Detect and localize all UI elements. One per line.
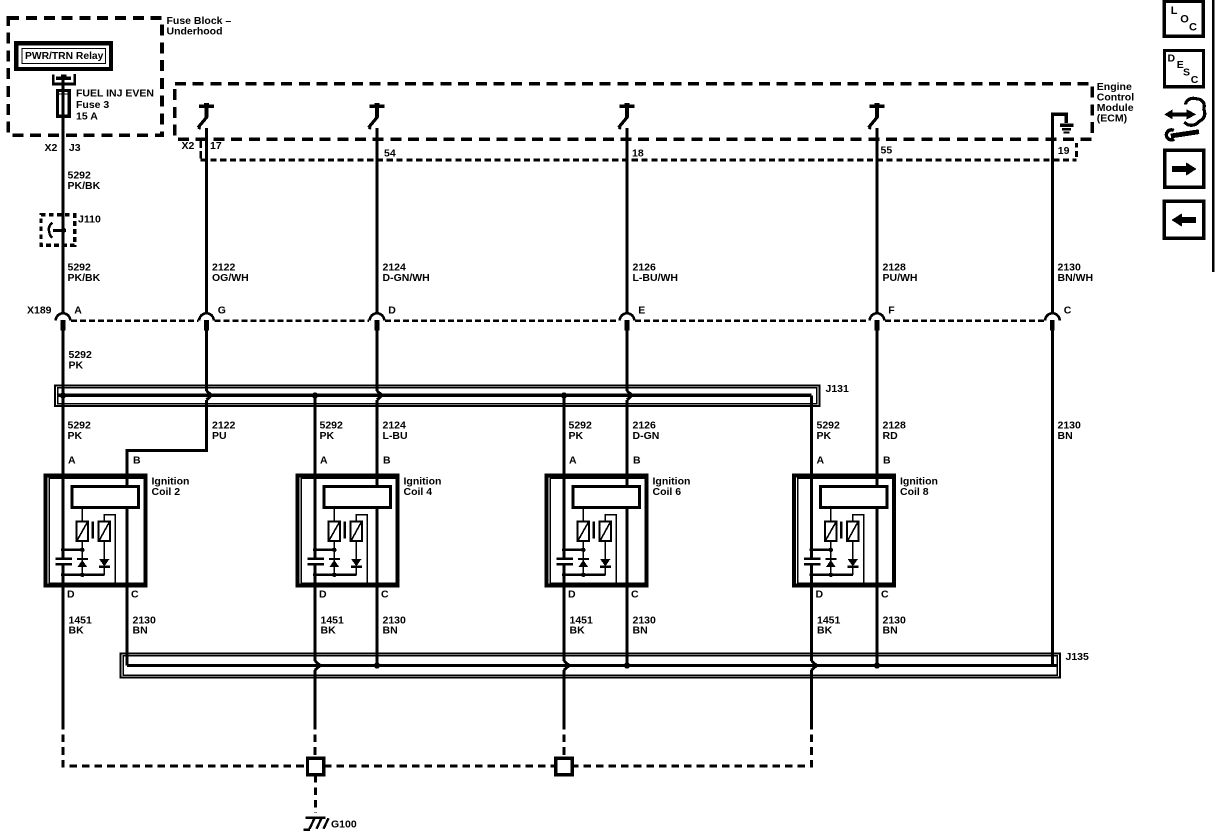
ignition coil 4 pin letters A B bbox=[320, 454, 391, 466]
ECM output driver pin 54 bbox=[369, 103, 385, 129]
ignition coil 4 primary winding bbox=[329, 508, 341, 542]
svg-text:15 A: 15 A bbox=[76, 111, 98, 123]
ignition coil 6 pin letters D C bbox=[568, 588, 639, 600]
svg-text:BN: BN bbox=[1058, 430, 1073, 442]
svg-text:L-BU: L-BU bbox=[383, 430, 408, 442]
wire 1451 BK coil 4 D below J135 bbox=[313, 670, 316, 722]
svg-text:17: 17 bbox=[210, 140, 222, 152]
ignition coil 4 capacitor bbox=[308, 559, 324, 565]
ignition coil 6 module block bbox=[573, 487, 640, 508]
ignition coil 2 label bbox=[152, 475, 190, 498]
wire crossing hop over J135 at x=564 bbox=[564, 661, 569, 670]
svg-text:C: C bbox=[1189, 22, 1197, 34]
ignition coil 6 capacitor bbox=[557, 559, 573, 565]
ECM output driver pin 17 bbox=[198, 103, 214, 129]
wire label 2126 L-BU/WH bbox=[633, 262, 679, 285]
svg-text:F: F bbox=[888, 305, 895, 317]
ignition coil 6 junction row bbox=[562, 548, 586, 552]
connector X189 pin A bbox=[56, 305, 83, 331]
svg-text:BK: BK bbox=[817, 624, 833, 636]
nav icon previous arrow bbox=[1164, 201, 1203, 238]
svg-text:D: D bbox=[319, 588, 327, 600]
svg-text:S: S bbox=[1183, 67, 1190, 79]
wire 5292 PK J131 to coil 2 pin A bbox=[61, 395, 64, 475]
svg-text:D: D bbox=[816, 588, 824, 600]
relay PWR/TRN Relay bbox=[16, 43, 111, 69]
svg-text:BN: BN bbox=[383, 624, 398, 636]
ignition coil 4 pin A-D wire inside bbox=[314, 476, 317, 586]
ignition coil 8 primary winding bbox=[825, 508, 837, 542]
svg-text:BN: BN bbox=[633, 624, 648, 636]
ignition coil 8 secondary winding bbox=[847, 522, 858, 542]
svg-text:Underhood: Underhood bbox=[167, 26, 223, 38]
ECM connector bracket right bbox=[1075, 143, 1078, 157]
wire label 2128 PU/WH bbox=[883, 262, 918, 285]
wire from ECM pin 17 to X189 bbox=[205, 128, 208, 315]
ignition coil 4 pin letters D C bbox=[319, 588, 389, 600]
svg-text:B: B bbox=[633, 454, 641, 466]
svg-text:C: C bbox=[131, 588, 139, 600]
junction dot J135 coil 6 C bbox=[624, 662, 630, 668]
ignition coil 2 core bbox=[92, 522, 94, 539]
wire 2122 PU J131 to coil 2 pin B with jog bbox=[127, 400, 207, 476]
wire 2128 from X189 F to ignition coil 8 pin B bbox=[875, 330, 878, 475]
ground splice square S2 bbox=[556, 758, 572, 774]
svg-text:BK: BK bbox=[321, 624, 337, 636]
ignition coil 6 pin B wire bbox=[625, 476, 628, 487]
ignition coil 4 secondary winding bbox=[351, 522, 362, 542]
wire label 2124 L-BU bbox=[383, 419, 408, 442]
wire from ECM pin 54 to X189 bbox=[375, 128, 378, 315]
junction dot J131 wire A coil 6 bbox=[561, 392, 567, 398]
ignition coil 2 pin A-D wire inside bbox=[62, 476, 65, 586]
svg-text:A: A bbox=[817, 454, 825, 466]
ground G100 bbox=[304, 818, 329, 830]
svg-text:J131: J131 bbox=[826, 383, 850, 395]
splice J131 bbox=[55, 386, 820, 407]
ECM output driver pin 18 bbox=[619, 103, 635, 129]
svg-text:18: 18 bbox=[632, 148, 644, 160]
splice J135 bbox=[121, 654, 1061, 678]
ignition coil 6 label bbox=[653, 475, 691, 498]
svg-text:X2: X2 bbox=[45, 142, 58, 154]
svg-text:PWR/TRN Relay: PWR/TRN Relay bbox=[25, 51, 104, 62]
svg-text:Coil 2: Coil 2 bbox=[152, 486, 181, 498]
svg-text:A: A bbox=[569, 454, 577, 466]
wire 1451 BK label coil 6 bbox=[570, 614, 594, 636]
ignition coil 8 pin C wire inside bbox=[875, 508, 878, 586]
ignition coil 6 core bbox=[593, 522, 595, 539]
wire 2130 BN label coil 2 bbox=[133, 614, 157, 636]
ignition coil 4 box bbox=[298, 476, 398, 586]
nav icon next arrow bbox=[1165, 150, 1204, 187]
wire 1451 BK coil 8 pin D to J135 crossing bbox=[810, 586, 813, 661]
svg-text:19: 19 bbox=[1058, 145, 1070, 157]
wire label 5292 PK bbox=[569, 419, 593, 442]
wire 1451 BK label coil 2 bbox=[69, 614, 93, 636]
wire 5292 from fuse down to X189 pin A bbox=[61, 76, 64, 315]
ECM label bbox=[1097, 81, 1134, 125]
svg-text:Coil 6: Coil 6 bbox=[653, 486, 682, 498]
svg-text:PK: PK bbox=[69, 360, 84, 372]
svg-text:BN: BN bbox=[883, 624, 898, 636]
wire 2124 from X189 D to splice J131 crossing bbox=[375, 330, 378, 390]
ECM internal ground pin 19 bbox=[1052, 114, 1073, 132]
wire 1451 BK label coil 4 bbox=[321, 614, 345, 636]
svg-text:BK: BK bbox=[69, 624, 85, 636]
svg-text:X2: X2 bbox=[182, 140, 195, 152]
svg-text:PU: PU bbox=[212, 430, 227, 442]
wire 2130 BN coil 4 pin C to splice J135 bbox=[375, 586, 378, 666]
ignition coil 6 pin A-D wire inside bbox=[563, 476, 566, 586]
wire label 5292 PK below X189 bbox=[69, 349, 93, 372]
wire 2130 BN coil 6 pin C to splice J135 bbox=[625, 586, 628, 666]
svg-text:G: G bbox=[218, 305, 226, 317]
ignition coil 8 pin B wire bbox=[875, 476, 878, 487]
wire crossing hop over J131 at x=627 bbox=[627, 391, 632, 400]
connector X189 pin D bbox=[370, 305, 397, 331]
ignition coil 4 pin C wire inside bbox=[375, 508, 378, 586]
wire label 5292 PK bbox=[320, 419, 344, 442]
wire label 2130 BN/WH bbox=[1058, 262, 1094, 285]
wire 1451 BK coil 6 pin D to J135 crossing bbox=[562, 586, 565, 661]
wire 2126 from X189 E to splice J131 crossing bbox=[625, 330, 628, 390]
svg-text:Fuse 3: Fuse 3 bbox=[76, 99, 109, 111]
fuse label bbox=[76, 87, 154, 122]
ignition coil 2 pin letters D C bbox=[67, 588, 139, 600]
ignition coil 4 module block bbox=[324, 487, 391, 508]
svg-text:X189: X189 bbox=[27, 305, 52, 317]
svg-text:D-GN/WH: D-GN/WH bbox=[383, 272, 430, 284]
ignition coil 2 pin C wire inside bbox=[125, 508, 128, 586]
svg-text:D-GN: D-GN bbox=[633, 430, 660, 442]
ground splice square S1 bbox=[307, 758, 323, 774]
svg-text:E: E bbox=[638, 305, 645, 317]
fuse block - underhood dashed box bbox=[8, 18, 162, 135]
svg-text:A: A bbox=[74, 305, 82, 317]
wire 5292 PK J131 right end to coil 8 pin A bbox=[810, 395, 813, 475]
wire 2130 BN label coil 6 bbox=[633, 614, 657, 636]
ignition coil 6 box bbox=[547, 476, 647, 586]
wire crossing hop over J131 at x=206.5 bbox=[207, 391, 212, 400]
ignition coil 8 right diode bbox=[847, 541, 858, 575]
wire crossing hop over J135 at x=315 bbox=[315, 661, 320, 670]
svg-text:J3: J3 bbox=[69, 142, 81, 154]
connector X189 pin E bbox=[620, 305, 646, 331]
wire 1451 BK coil 2 pin D down bbox=[61, 586, 64, 723]
wire from ECM pin 18 to X189 bbox=[625, 128, 628, 315]
ignition coil 8 capacitor bbox=[804, 559, 820, 565]
ignition coil 8 core bbox=[840, 522, 842, 539]
ECM dashed box bbox=[175, 84, 1092, 140]
svg-text:L: L bbox=[1171, 5, 1178, 17]
wire 2124 L-BU J131 to coil 4 pin B bbox=[375, 400, 378, 476]
wire 2130 BN coil 8 pin C to splice J135 bbox=[875, 586, 878, 666]
nav icon LOC bbox=[1164, 1, 1203, 36]
dashed wire splice square S1 to ground G100 bbox=[314, 775, 317, 813]
nav icon DESC bbox=[1165, 51, 1204, 87]
ignition coil 8 pin letters D C bbox=[816, 588, 890, 600]
fuse holder clip bbox=[53, 74, 74, 84]
wire crossing hop over J135 at x=811.5 bbox=[812, 661, 817, 670]
svg-text:C: C bbox=[1064, 305, 1072, 317]
wire 2130 BN label coil 8 bbox=[883, 614, 907, 636]
ignition coil 4 secondary output wire bbox=[356, 515, 367, 583]
svg-text:D: D bbox=[568, 588, 576, 600]
svg-text:J135: J135 bbox=[1066, 651, 1090, 663]
ignition coil 4 bottom junction row bbox=[313, 573, 357, 577]
wire label 5292 PK bbox=[817, 419, 841, 442]
ignition coil 2 left diode bbox=[77, 541, 88, 575]
svg-text:C: C bbox=[881, 588, 889, 600]
wire label 5292 PK bbox=[68, 419, 92, 442]
ignition coil 8 left diode bbox=[825, 541, 836, 575]
ignition coil 6 pin letters A B bbox=[569, 454, 641, 466]
ignition coil 2 box bbox=[46, 476, 146, 586]
ignition coil 6 right diode bbox=[600, 541, 611, 575]
svg-text:C: C bbox=[381, 588, 389, 600]
svg-text:PK: PK bbox=[569, 430, 584, 442]
ignition coil 2 right diode bbox=[99, 541, 110, 575]
svg-text:BK: BK bbox=[570, 624, 586, 636]
ignition coil 6 left diode bbox=[578, 541, 589, 575]
wire 2122 from X189 G to splice J131 crossing bbox=[205, 330, 208, 390]
svg-text:PK/BK: PK/BK bbox=[68, 180, 101, 192]
ignition coil 8 box bbox=[794, 476, 894, 586]
svg-text:B: B bbox=[383, 454, 391, 466]
ignition coil 2 pin letters A B bbox=[68, 454, 141, 466]
wire 1451 BK coil 6 D below J135 bbox=[562, 670, 565, 722]
svg-text:BN/WH: BN/WH bbox=[1058, 272, 1094, 284]
svg-text:PU/WH: PU/WH bbox=[883, 272, 918, 284]
ignition coil 8 pin letters A B bbox=[817, 454, 892, 466]
connector X189 pin F bbox=[870, 305, 896, 331]
connector X189 dotted line bbox=[71, 319, 1044, 322]
svg-text:J110: J110 bbox=[78, 213, 101, 225]
svg-text:B: B bbox=[883, 454, 891, 466]
fuse block label bbox=[167, 15, 232, 38]
ignition coil 6 bottom junction row bbox=[562, 573, 606, 577]
ignition coil 8 junction row bbox=[809, 548, 833, 552]
junction dot J131 wire A coil 2 bbox=[60, 392, 66, 398]
wire label 2122 PU bbox=[212, 419, 236, 442]
ignition coil 8 bottom junction row bbox=[809, 573, 853, 577]
dashed ground wire between splice squares bbox=[324, 765, 556, 768]
dashed ground wire from coil 4 D to splice square bbox=[314, 722, 317, 758]
svg-text:A: A bbox=[68, 454, 76, 466]
connector label X2 J3 bbox=[45, 142, 81, 154]
fuse FUEL INJ EVEN Fuse 3 15A bbox=[57, 91, 69, 117]
ignition coil 2 junction row bbox=[61, 548, 85, 552]
ignition coil 8 secondary output wire bbox=[853, 515, 864, 583]
ignition coil 2 secondary winding bbox=[99, 522, 110, 542]
wire label 5292 PK/BK lower bbox=[68, 262, 101, 285]
ignition coil 4 right diode bbox=[351, 541, 362, 575]
wire 1451 BK coil 4 pin D to J135 crossing bbox=[313, 586, 316, 661]
svg-text:B: B bbox=[133, 454, 141, 466]
svg-text:PK/BK: PK/BK bbox=[68, 272, 101, 284]
wire label 5292 PK/BK upper bbox=[68, 169, 101, 192]
ignition coil 8 pin A-D wire inside bbox=[810, 476, 813, 586]
wire from ECM pin 55 to X189 bbox=[875, 128, 878, 315]
svg-text:A: A bbox=[320, 454, 328, 466]
wire 2130 from X189 C down to splice J135 bbox=[1051, 330, 1054, 665]
wire 5292 PK J131 to coil 4 pin A bbox=[313, 395, 316, 475]
dashed ground wire from coil 2 D bbox=[63, 722, 307, 766]
svg-text:PK: PK bbox=[817, 430, 832, 442]
ignition coil 2 capacitor bbox=[56, 559, 72, 565]
ignition coil 6 secondary output wire bbox=[605, 515, 616, 583]
wire 5292 PK from X189 A to splice J131 bbox=[61, 330, 64, 395]
svg-text:BN: BN bbox=[133, 624, 148, 636]
ignition coil 6 pin C wire inside bbox=[625, 508, 628, 586]
connector X189 pin G bbox=[199, 305, 226, 331]
svg-text:54: 54 bbox=[384, 148, 396, 160]
svg-text:O: O bbox=[1180, 14, 1189, 26]
svg-text:(ECM): (ECM) bbox=[1097, 113, 1127, 125]
svg-text:Coil 4: Coil 4 bbox=[404, 486, 433, 498]
ignition coil 2 bottom junction row bbox=[61, 573, 105, 577]
svg-text:FUEL INJ EVEN: FUEL INJ EVEN bbox=[76, 87, 154, 99]
svg-text:C: C bbox=[1191, 74, 1199, 86]
svg-text:Coil 8: Coil 8 bbox=[900, 486, 929, 498]
connector X189 pin C bbox=[1045, 305, 1072, 331]
ECM output driver pin 55 bbox=[869, 103, 885, 129]
wire 2130 BN coil 2 pin C to splice J135 bbox=[125, 586, 128, 666]
nav icon tools arrows bbox=[1164, 98, 1204, 140]
ignition coil 4 junction row bbox=[313, 548, 337, 552]
ignition coil 8 label bbox=[900, 475, 938, 498]
ECM connector bracket X2 left bbox=[182, 140, 201, 159]
wire label 2124 D-GN/WH bbox=[383, 262, 430, 285]
ignition coil 2 primary winding bbox=[77, 508, 89, 542]
wire label 2126 D-GN bbox=[633, 419, 660, 442]
wire 1451 BK label coil 8 bbox=[817, 614, 841, 636]
wire label 2122 OG/WH bbox=[212, 262, 249, 285]
svg-text:OG/WH: OG/WH bbox=[212, 272, 249, 284]
svg-text:RD: RD bbox=[883, 430, 899, 442]
dashed ground wire from coil 6 D to splice square bbox=[563, 722, 566, 758]
junction dot J135 coil 8 C bbox=[874, 662, 880, 668]
wire from ECM pin 19 ground to X189 bbox=[1051, 114, 1054, 315]
svg-text:PK: PK bbox=[320, 430, 335, 442]
ignition coil 4 pin B wire bbox=[375, 476, 378, 487]
dashed ground wire from coil 8 D bbox=[572, 722, 811, 766]
svg-text:55: 55 bbox=[881, 145, 893, 157]
ignition coil 6 primary winding bbox=[578, 508, 590, 542]
wire label 2130 BN bbox=[1058, 419, 1082, 442]
ignition coil 4 left diode bbox=[329, 541, 340, 575]
svg-text:PK: PK bbox=[68, 430, 83, 442]
splice J110 bbox=[41, 215, 75, 245]
svg-text:D: D bbox=[1168, 53, 1176, 65]
junction dot J131 wire A coil 4 bbox=[312, 392, 318, 398]
ignition coil 4 label bbox=[404, 475, 442, 498]
sidebar divider line bbox=[1212, 0, 1215, 272]
wire 2126 D-GN J131 to coil 6 pin B bbox=[625, 400, 628, 476]
ignition coil 6 secondary winding bbox=[600, 522, 611, 542]
wire 5292 PK J131 to coil 6 pin A bbox=[562, 395, 565, 475]
junction dot J135 coil 4 C bbox=[374, 662, 380, 668]
ignition coil 4 core bbox=[344, 522, 346, 539]
wire label 2128 RD bbox=[883, 419, 907, 442]
ignition coil 2 pin B wire bbox=[125, 476, 128, 487]
svg-text:G100: G100 bbox=[331, 818, 357, 830]
ignition coil 8 module block bbox=[821, 487, 888, 508]
svg-text:D: D bbox=[388, 305, 396, 317]
ignition coil 2 module block bbox=[72, 487, 139, 508]
svg-text:L-BU/WH: L-BU/WH bbox=[633, 272, 679, 284]
svg-text:D: D bbox=[67, 588, 75, 600]
ECM connector dotted line bbox=[201, 158, 1077, 161]
wire crossing hop over J131 at x=377 bbox=[377, 391, 382, 400]
wire 2130 BN label coil 4 bbox=[383, 614, 407, 636]
svg-text:C: C bbox=[631, 588, 639, 600]
wire 1451 BK coil 8 D below J135 bbox=[810, 670, 813, 722]
ignition coil 2 secondary output wire bbox=[104, 515, 115, 583]
